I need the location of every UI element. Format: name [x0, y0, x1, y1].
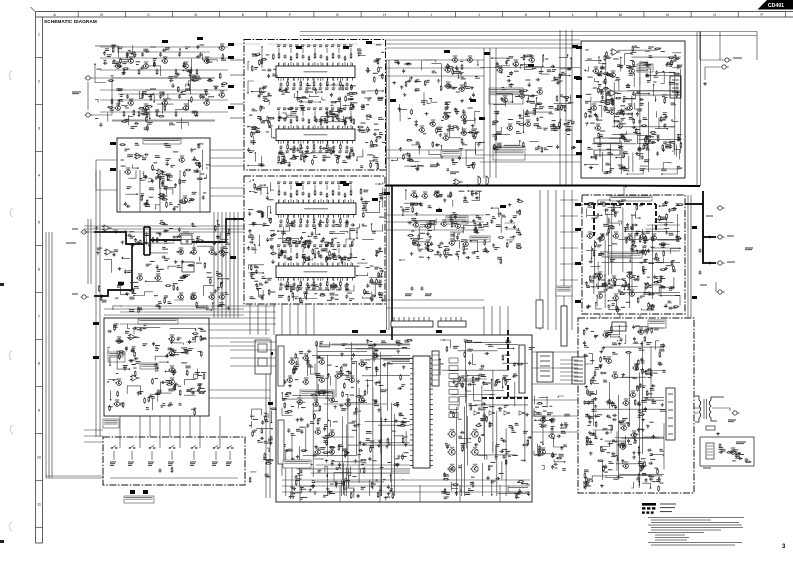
resistor R187	[269, 121, 271, 127]
wire	[616, 149, 623, 158]
wire	[278, 239, 299, 241]
wire	[350, 111, 352, 116]
capacitor C419	[663, 123, 666, 127]
node label TO TRANSPORT	[103, 419, 119, 428]
node label	[266, 131, 269, 133]
capacitor C279	[345, 294, 348, 298]
node label	[598, 85, 602, 87]
capacitor C195	[284, 88, 288, 91]
wire	[87, 82, 89, 110]
wire (mid bus)	[480, 161, 580, 163]
resistor R468	[598, 87, 600, 93]
node label	[256, 287, 262, 289]
transistor Q211	[178, 156, 184, 162]
wire (routing mesh)	[632, 153, 634, 173]
capacitor C322	[172, 371, 175, 375]
capacitor C293	[214, 252, 217, 256]
wire	[155, 354, 168, 361]
wire	[492, 57, 513, 59]
resistor R388	[412, 207, 414, 213]
node label	[502, 89, 507, 91]
capacitor C394	[518, 114, 522, 117]
wire	[452, 200, 454, 207]
capacitor C236	[261, 296, 264, 300]
node label	[350, 86, 356, 88]
node label	[630, 52, 636, 54]
capacitor C425	[646, 73, 649, 77]
node label	[262, 120, 268, 122]
arrow down on dashed vertical	[592, 232, 595, 236]
node (board interconnect tag)	[162, 40, 168, 43]
resistor R184	[268, 117, 274, 119]
capacitor C418	[677, 65, 680, 69]
resistor R384	[517, 201, 523, 203]
capacitor C270	[331, 238, 334, 242]
wire	[524, 62, 533, 70]
resistor R134	[138, 108, 144, 110]
capacitor C345	[414, 88, 417, 92]
resistor R240	[289, 148, 295, 150]
wire	[302, 101, 320, 103]
wire	[296, 298, 318, 300]
wire	[475, 111, 480, 121]
resistor R208	[378, 66, 380, 72]
wire (mid bus)	[480, 67, 580, 69]
wire (upper mid bus)	[386, 43, 580, 45]
transistor Q25 (playback amp)	[182, 104, 188, 110]
switch S5	[191, 445, 199, 448]
resistor R390	[506, 242, 508, 248]
wire	[329, 97, 341, 112]
wire	[529, 141, 538, 143]
node label	[168, 348, 174, 350]
node junction	[319, 233, 321, 235]
wire	[306, 290, 328, 300]
resistor R200	[371, 140, 373, 146]
wire	[357, 224, 359, 239]
wire (routing mesh)	[610, 144, 612, 171]
resistor R292	[304, 257, 306, 263]
capacitor C192	[352, 105, 355, 109]
wire	[637, 69, 648, 71]
node label	[419, 256, 424, 258]
capacitor C342	[435, 144, 439, 147]
node label	[600, 130, 606, 132]
capacitor C168	[280, 145, 283, 149]
resistor R222	[353, 118, 355, 124]
node label	[200, 329, 206, 331]
node (board interconnect tag)	[479, 117, 485, 120]
node junction	[353, 239, 355, 241]
capacitor C191	[326, 114, 329, 118]
ground	[392, 81, 396, 85]
capacitor C105	[199, 52, 202, 56]
wire	[676, 83, 678, 93]
resistor R133	[123, 68, 129, 70]
wire	[338, 262, 340, 266]
capacitor C103	[159, 52, 162, 56]
op-amp U8A	[128, 334, 138, 340]
resistor R253	[313, 218, 315, 224]
transistor Q4 head-switch (464,117)	[460, 113, 466, 119]
resistor R301	[290, 286, 292, 292]
capacitor C169	[293, 145, 296, 149]
resistor R424	[565, 129, 571, 131]
capacitor C193	[325, 112, 329, 115]
node junction	[254, 244, 256, 246]
resistor R346	[148, 396, 150, 402]
wire (dolby2 right bus)	[209, 389, 270, 391]
node label	[142, 344, 147, 346]
capacitor C351	[399, 147, 402, 151]
resistor R129	[120, 58, 122, 64]
resistor R456	[604, 105, 606, 111]
resistor R460	[605, 78, 607, 84]
node label S1 function	[110, 462, 116, 465]
wire	[339, 141, 341, 145]
wire	[566, 129, 572, 131]
node label	[72, 228, 78, 230]
capacitor C107	[141, 94, 144, 98]
node label	[177, 204, 180, 206]
wire	[314, 248, 316, 253]
wire (mid bus)	[480, 154, 580, 156]
transistor Q22x at 339	[168, 335, 174, 341]
node label	[147, 122, 153, 124]
wire	[290, 125, 292, 129]
resistor R112	[177, 86, 179, 92]
node label	[648, 47, 654, 49]
ground	[456, 127, 460, 131]
node junction	[273, 137, 275, 139]
node junction	[261, 46, 263, 48]
capacitor C278	[351, 224, 355, 227]
wire	[427, 100, 431, 103]
resistor R372	[448, 67, 454, 69]
node label	[372, 231, 376, 233]
capacitor C136	[156, 175, 160, 178]
resistor R347	[179, 390, 181, 396]
capacitor C326	[167, 404, 171, 407]
wire	[300, 78, 302, 82]
wire	[261, 47, 263, 68]
svg-text:J: J	[478, 12, 480, 17]
node junction	[286, 116, 288, 118]
resistor R306	[319, 294, 325, 296]
wire	[333, 278, 335, 282]
capacitor C112	[145, 50, 149, 53]
resistor R154	[195, 162, 201, 164]
wire (vertical bus mid)	[489, 48, 491, 178]
resistor R383	[475, 227, 477, 233]
wire	[423, 92, 425, 104]
wire (center-right bus)	[547, 190, 549, 330]
capacitor C381	[417, 244, 421, 247]
wire	[153, 93, 155, 102]
resistor R195	[273, 54, 275, 60]
wire	[177, 239, 194, 250]
wire	[109, 357, 111, 365]
resistor R428	[615, 97, 621, 99]
resistor R322	[217, 305, 223, 307]
resistor R224	[351, 103, 353, 109]
node AC POWER tag 2	[143, 490, 148, 494]
wire	[339, 78, 341, 82]
node label	[459, 149, 463, 151]
capacitor C218	[306, 219, 309, 223]
wire	[249, 223, 263, 225]
node label	[177, 266, 182, 268]
svg-text:3: 3	[38, 126, 40, 131]
node label	[249, 114, 253, 116]
resistor R262	[332, 253, 334, 259]
transistor Q15 (playback amp)	[182, 62, 188, 68]
capacitor C382	[464, 196, 467, 200]
transistor Q5 mute (462,89)	[458, 85, 464, 91]
ground	[460, 99, 464, 103]
resistor R393	[413, 239, 415, 245]
resistor R135	[118, 99, 120, 105]
wire	[108, 381, 109, 383]
resistor R453	[611, 99, 613, 105]
resistor R471	[662, 144, 664, 150]
wire	[620, 169, 622, 174]
capacitor C407	[666, 63, 669, 67]
capacitor C153	[126, 205, 130, 208]
node label	[669, 126, 674, 128]
capacitor C276	[299, 240, 302, 244]
node (board interconnect tag)	[470, 99, 476, 102]
resistor R370	[464, 82, 466, 88]
capacitor C446	[622, 99, 625, 103]
node label	[412, 219, 417, 221]
node label	[196, 262, 202, 264]
wire	[258, 235, 260, 246]
svg-text:CD491: CD491	[768, 3, 784, 9]
wire	[104, 259, 111, 272]
capacitor C430	[605, 106, 608, 110]
node label	[198, 327, 203, 329]
resistor R197	[260, 105, 262, 111]
wire	[345, 285, 354, 291]
wire	[131, 451, 133, 460]
resistor R433	[632, 46, 634, 52]
wire	[252, 91, 267, 93]
capacitor C135	[151, 179, 154, 183]
capacitor C130	[153, 62, 156, 66]
node label	[461, 77, 466, 79]
resistor R172	[296, 116, 298, 122]
node label	[306, 87, 311, 89]
capacitor C331	[177, 337, 180, 341]
wire	[108, 378, 117, 381]
node label	[322, 249, 327, 251]
wire (vertical bus left)	[221, 212, 223, 318]
wire	[296, 62, 298, 66]
node label	[405, 208, 410, 210]
wire	[350, 248, 352, 253]
node label AC POWER	[124, 496, 154, 503]
ground	[470, 86, 474, 90]
wire	[293, 278, 295, 282]
node label	[335, 294, 338, 296]
capacitor C222	[284, 254, 287, 258]
capacitor C122	[134, 122, 138, 125]
capacitor C316	[173, 385, 176, 389]
node junction	[405, 189, 407, 191]
resistor R156	[278, 53, 280, 59]
node label	[186, 390, 191, 392]
capacitor C231	[346, 282, 349, 286]
capacitor C271	[317, 250, 320, 254]
wire	[212, 303, 214, 309]
node junction	[379, 183, 381, 185]
node label	[187, 390, 193, 392]
wire	[280, 78, 282, 82]
node label	[161, 405, 166, 407]
node label	[121, 165, 126, 167]
resistor R427	[596, 115, 598, 121]
resistor R257	[290, 256, 292, 261]
resistor R296	[304, 243, 306, 249]
wire	[330, 242, 332, 247]
node (board interconnect tag)	[296, 46, 302, 49]
node label	[127, 155, 133, 157]
capacitor C288	[100, 296, 103, 300]
resistor R288	[291, 221, 293, 227]
node label	[640, 169, 646, 171]
node label	[643, 118, 648, 120]
wire	[262, 290, 264, 300]
resistor R401	[429, 220, 435, 222]
resistor R396	[450, 191, 452, 197]
capacitor C432	[639, 98, 643, 101]
wire (dolby2 top bus)	[120, 323, 276, 325]
svg-text:6: 6	[38, 267, 40, 272]
node junction	[122, 257, 124, 259]
node junction	[391, 160, 393, 162]
capacitor C167	[338, 117, 341, 121]
wire	[326, 185, 328, 190]
wire	[248, 126, 252, 128]
node (board interconnect tag)	[366, 41, 372, 44]
wire	[127, 336, 140, 338]
wire	[173, 342, 183, 344]
resistor R225	[351, 92, 357, 94]
node junction	[190, 72, 192, 74]
capacitor C364	[419, 202, 422, 206]
svg-text:N: N	[666, 12, 669, 17]
node label	[308, 85, 312, 87]
node label	[375, 251, 378, 253]
capacitor C383	[510, 71, 513, 75]
node label	[485, 214, 490, 216]
wire	[113, 451, 115, 460]
wire	[268, 100, 270, 105]
node label	[613, 58, 619, 60]
node junction	[458, 77, 460, 79]
resistor R127	[107, 106, 113, 108]
resistor R397	[427, 250, 433, 252]
svg-text:D: D	[194, 12, 197, 17]
capacitor C348	[402, 69, 405, 73]
resistor R408	[495, 134, 497, 140]
wire	[326, 248, 328, 253]
resistor R210	[376, 136, 382, 138]
wire	[357, 273, 368, 276]
node label	[192, 225, 196, 227]
transistor Q6 (437,195)	[433, 191, 439, 197]
resistor R472	[603, 88, 609, 90]
wire	[220, 233, 228, 240]
node label	[620, 105, 625, 107]
capacitor C376	[513, 225, 516, 229]
node junction	[495, 134, 497, 136]
capacitor C199	[314, 88, 317, 92]
wire (routing mesh)	[605, 54, 607, 104]
node junction	[356, 275, 358, 277]
resistor R122	[221, 83, 227, 85]
ground	[213, 242, 217, 246]
node junction	[512, 101, 514, 103]
capacitor C429	[669, 144, 672, 148]
resistor R338	[174, 385, 176, 391]
node label	[408, 118, 411, 120]
wire	[585, 66, 589, 71]
capacitor C314	[191, 391, 195, 394]
node junction	[491, 57, 493, 59]
node label	[376, 44, 382, 46]
wire (CD-2 to logic bus)	[265, 304, 267, 335]
resistor R101	[123, 69, 125, 75]
ground	[471, 163, 475, 167]
capacitor C306	[137, 391, 140, 395]
wire	[278, 226, 289, 231]
node label	[124, 105, 127, 107]
node label	[587, 147, 593, 149]
resistor R185	[263, 100, 269, 102]
capacitor C284	[285, 285, 288, 289]
node label	[410, 203, 414, 205]
wire (dolby2 right bus)	[209, 337, 270, 339]
capacitor C315	[129, 359, 133, 362]
node label	[262, 277, 267, 279]
capacitor C104	[178, 52, 181, 56]
node label	[66, 242, 76, 244]
resistor R255	[340, 218, 342, 224]
capacitor C211	[350, 149, 354, 152]
capacitor C340	[451, 87, 455, 90]
resistor R320	[215, 225, 217, 231]
transistor Q7 (444,224)	[440, 220, 446, 226]
wire	[129, 45, 133, 53]
node label	[136, 61, 141, 63]
resistor R335	[114, 325, 116, 331]
wire	[487, 222, 488, 225]
node junction	[430, 226, 432, 228]
node label	[496, 225, 502, 227]
connector LINE IN LEFT	[81, 230, 89, 234]
node label	[121, 159, 124, 161]
node (board interconnect tag)	[343, 46, 349, 49]
wire	[505, 222, 516, 224]
wire	[110, 391, 112, 400]
wire (upper mid bus)	[386, 39, 580, 41]
wire	[346, 278, 348, 282]
wire	[309, 95, 320, 97]
wire	[248, 165, 265, 167]
resistor R319	[221, 282, 223, 288]
